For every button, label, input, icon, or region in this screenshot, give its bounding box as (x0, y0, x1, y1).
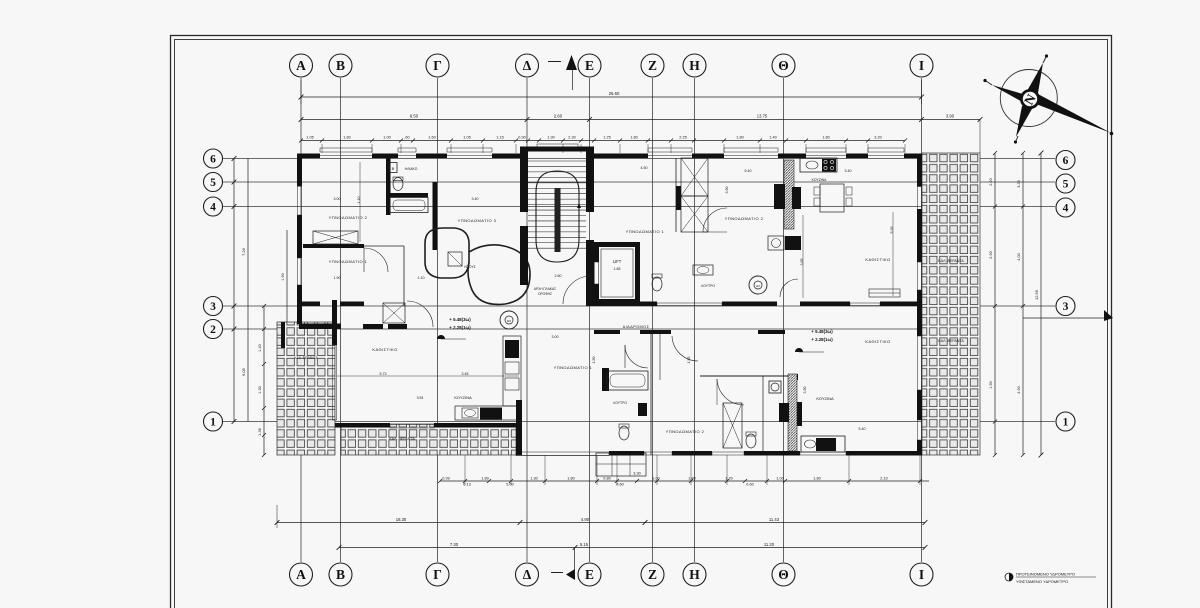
svg-text:0.93: 0.93 (417, 396, 424, 400)
svg-text:5.73: 5.73 (380, 372, 387, 376)
svg-text:2.30: 2.30 (568, 136, 575, 140)
svg-text:11.20: 11.20 (764, 542, 775, 547)
svg-text:ΔΙΑΔΡΟΜΟΣ: ΔΙΑΔΡΟΜΟΣ (623, 324, 650, 329)
svg-text:ΥΦΙΣΤΑΜΕΝΟ ΥΔΡΟΜΕΤΡΟ: ΥΦΙΣΤΑΜΕΝΟ ΥΔΡΟΜΕΤΡΟ (1016, 579, 1068, 584)
svg-text:1.36: 1.36 (258, 428, 262, 435)
svg-text:12.56: 12.56 (1034, 289, 1039, 300)
shower pod blobs (425, 228, 469, 278)
svg-text:1.50: 1.50 (592, 357, 596, 364)
svg-text:1.40: 1.40 (258, 344, 262, 351)
kitchen counters left (455, 406, 519, 420)
svg-text:5.40: 5.40 (745, 169, 752, 173)
veranda right (tiled) (922, 153, 980, 455)
svg-text:B: B (392, 166, 395, 171)
svg-text:ΥΠΝΟΔΩΜΑΤΙΟ 1: ΥΠΝΟΔΩΜΑΤΙΟ 1 (329, 259, 368, 264)
svg-text:H: H (689, 58, 700, 73)
toilet 2 bottom apt (746, 434, 756, 448)
bath fixtures right apt (652, 277, 662, 291)
svg-text:+ 2.28(1ω): + 2.28(1ω) (811, 337, 833, 342)
svg-text:5.15: 5.15 (580, 542, 589, 547)
border frame inner (175, 40, 1108, 608)
kitchen counter top apt (800, 158, 837, 172)
walls bottom apt verticals (650, 334, 652, 455)
entry door arc (563, 276, 591, 304)
wall kitchen south-east (516, 400, 522, 424)
boiler (389, 163, 397, 173)
svg-text:1.20: 1.20 (725, 477, 732, 481)
heater symbol right apt (749, 276, 767, 294)
lift door gap (595, 262, 599, 284)
veranda left top wall (299, 324, 341, 330)
bottom wall right apartment (609, 451, 644, 456)
svg-text:LIFT: LIFT (613, 259, 622, 264)
svg-text:4: 4 (210, 201, 216, 213)
legend (1005, 573, 1013, 581)
svg-text:ΚΑΘΙΣΤΙΚΟ: ΚΑΘΙΣΤΙΚΟ (372, 347, 397, 352)
svg-text:Γ: Γ (433, 58, 442, 73)
svg-text:ΟΡΟΦΗΣ: ΟΡΟΦΗΣ (538, 292, 552, 296)
svg-text:4.50: 4.50 (641, 166, 648, 170)
svg-text:0.13: 0.13 (463, 483, 470, 487)
svg-text:3.25: 3.25 (1017, 180, 1021, 187)
svg-text:3.30: 3.30 (633, 472, 640, 476)
svg-text:ΚΟΥΖΙΝΑ: ΚΟΥΖΙΝΑ (812, 178, 827, 182)
svg-text:1.25: 1.25 (603, 136, 610, 140)
dimension column right middle (1022, 153, 1024, 455)
kitchen counter bottom apt (801, 436, 845, 452)
svg-text:1.80: 1.80 (822, 136, 829, 140)
stair left wall (520, 147, 528, 212)
boiler circles symbol (500, 311, 518, 329)
svg-text:2.25: 2.25 (679, 136, 686, 140)
dimension column left small (263, 306, 265, 455)
wall bed1 east (403, 246, 405, 306)
svg-text:E: E (585, 567, 594, 582)
svg-text:1.80: 1.80 (343, 136, 350, 140)
svg-text:ΝΤΟΥΣ: ΝΤΟΥΣ (464, 265, 475, 269)
svg-text:ΚΑΘΙΣΤΙΚΟ: ΚΑΘΙΣΤΙΚΟ (865, 339, 890, 344)
svg-text:5: 5 (1063, 178, 1069, 190)
wardrobe X bottom apt (723, 403, 742, 448)
svg-text:2: 2 (210, 324, 216, 336)
svg-text:ΥΠΝΟΔΩΜΑΤΙΟ 2: ΥΠΝΟΔΩΜΑΤΙΟ 2 (725, 216, 764, 221)
row3 wall right apartment (594, 302, 657, 307)
wall bath west (386, 158, 391, 215)
partition bed2/bed1 (303, 244, 364, 248)
svg-text:1.00: 1.00 (652, 477, 659, 481)
veranda left (tiled) (277, 322, 335, 455)
svg-text:1.30: 1.30 (530, 477, 537, 481)
svg-text:3.40: 3.40 (472, 197, 479, 201)
appliances row (oven+hob) (785, 236, 801, 250)
small protruding room (596, 453, 646, 476)
svg-text:1.80: 1.80 (630, 136, 637, 140)
svg-text:+ 5.48(3ω): + 5.48(3ω) (811, 329, 833, 334)
dimension row top total 25.60 (301, 96, 922, 98)
svg-text:2.60: 2.60 (554, 114, 563, 119)
door arc bed1 (364, 248, 388, 272)
svg-text:1.90: 1.90 (989, 381, 993, 388)
exterior wall top band with windows (297, 154, 320, 159)
svg-text:+ 5.48(3ω): + 5.48(3ω) (449, 317, 471, 322)
duct hatch bottom apt (788, 374, 797, 451)
svg-text:1.90: 1.90 (281, 273, 285, 280)
svg-text:6: 6 (1063, 155, 1069, 167)
svg-text:A: A (296, 58, 306, 73)
svg-text:7.30: 7.30 (450, 542, 459, 547)
svg-text:6: 6 (210, 153, 216, 165)
svg-text:3.45: 3.45 (462, 372, 469, 376)
kitchen east column (503, 336, 521, 406)
svg-text:0.90: 0.90 (518, 136, 525, 140)
svg-text:2.60: 2.60 (555, 274, 562, 278)
svg-text:1.30: 1.30 (258, 386, 262, 393)
svg-text:5.00: 5.00 (506, 483, 513, 487)
svg-text:6.05: 6.05 (241, 367, 246, 376)
svg-text:11.43: 11.43 (769, 517, 780, 522)
wardrobe X left (313, 231, 358, 244)
svg-text:4.90: 4.90 (1017, 386, 1021, 393)
svg-text:5.40: 5.40 (859, 427, 866, 431)
svg-text:ΚΟΥΖΙΝΑ: ΚΟΥΖΙΝΑ (454, 395, 472, 400)
svg-text:ΥΠΝΟΔΩΜΑΤΙΟ 2: ΥΠΝΟΔΩΜΑΤΙΟ 2 (329, 215, 368, 220)
compass rose (1000, 70, 1057, 127)
svg-text:ΛΟΥΤΡΟ: ΛΟΥΤΡΟ (613, 401, 627, 405)
svg-text:B: B (336, 58, 345, 73)
svg-text:ΠΡΟΤΕΙΝΟΜΕΝΟ ΥΔΡΟΜΕΤΡΟ: ΠΡΟΤΕΙΝΟΜΕΝΟ ΥΔΡΟΜΕΤΡΟ (1016, 572, 1075, 577)
bathtub bottom apt (607, 371, 648, 390)
bathtub 1 (390, 198, 428, 213)
svg-text:ΥΠΝΟΔΩΜΑΤΙΟ 1: ΥΠΝΟΔΩΜΑΤΙΟ 1 (626, 229, 665, 234)
wall bed1/bed2 (675, 158, 677, 232)
svg-text:13.75: 13.75 (757, 114, 768, 119)
svg-text:Δ: Δ (523, 567, 532, 582)
svg-text:1: 1 (1063, 416, 1069, 428)
svg-text:ΚΑΛ. ΒΕΡΑΝΤΑ: ΚΑΛ. ΒΕΡΑΝΤΑ (938, 339, 964, 343)
svg-text:1.80: 1.80 (736, 136, 743, 140)
grid lines vertical A-I (300, 78, 302, 562)
dimension row top second 8.50 / 2.60 / 13.75 / 3.90 (301, 119, 980, 121)
exterior wall right x=917 (917, 154, 922, 187)
svg-text:ΥΠΝΟΔΩΜΑΤΙΟ 3: ΥΠΝΟΔΩΜΑΤΙΟ 3 (458, 218, 497, 223)
wardrobe X right apt (681, 158, 708, 196)
svg-text:2.90: 2.90 (989, 251, 993, 258)
svg-text:1.90: 1.90 (547, 136, 554, 140)
wardrobe X hall (383, 303, 405, 323)
svg-text:+ 2.28(1ω): + 2.28(1ω) (449, 325, 471, 330)
svg-text:1.10: 1.10 (418, 276, 425, 280)
svg-text:I: I (919, 58, 924, 73)
svg-text:1.05: 1.05 (306, 136, 313, 140)
svg-text:5.35: 5.35 (890, 227, 894, 234)
svg-text:3.50: 3.50 (803, 387, 807, 394)
dimension row bottom 18.30 / 4.90 / 11.43 (277, 522, 925, 524)
svg-text:2.10: 2.10 (880, 477, 887, 481)
dimension row bottom small dims (440, 480, 929, 482)
living west wall (332, 300, 337, 345)
svg-text:B: B (336, 567, 345, 582)
svg-text:1.60: 1.60 (428, 136, 435, 140)
stair treads (528, 160, 586, 162)
svg-text:1.55: 1.55 (687, 357, 691, 364)
svg-text:ΚΑΘΙΣΤΙΚΟ: ΚΑΘΙΣΤΙΚΟ (865, 257, 890, 262)
lift shaft (594, 242, 640, 247)
stair top wall jut (520, 147, 594, 152)
svg-text:1.90: 1.90 (334, 276, 341, 280)
svg-text:7.26: 7.26 (241, 247, 246, 256)
svg-text:1.15: 1.15 (496, 136, 503, 140)
dimension row bottom 7.30 / 5.15 / 11.20 (339, 547, 925, 549)
dimension column right inner (994, 153, 996, 455)
svg-text:Z: Z (648, 567, 657, 582)
svg-text:ΛΟΥΤΡΟ: ΛΟΥΤΡΟ (701, 284, 715, 288)
svg-text:18.30: 18.30 (396, 517, 407, 522)
veranda bottom (tiled) (341, 424, 516, 455)
svg-text:Θ: Θ (778, 567, 789, 582)
svg-text:0.99: 0.99 (442, 477, 449, 481)
stair guard oval (536, 171, 579, 262)
toilet 1 (393, 178, 403, 191)
svg-text:1.89: 1.89 (481, 477, 488, 481)
svg-text:ΘΣ: ΘΣ (507, 319, 511, 323)
svg-text:Θ: Θ (778, 58, 789, 73)
svg-text:ΚΟΥΖΙΝΑ: ΚΟΥΖΙΝΑ (816, 396, 834, 401)
svg-text:3.00: 3.00 (334, 197, 341, 201)
svg-text:3: 3 (210, 301, 216, 313)
shower square (448, 252, 462, 266)
corridor walls (594, 330, 620, 334)
svg-text:4.00: 4.00 (1017, 253, 1021, 260)
sliding door top apt (869, 289, 900, 297)
svg-text:3.85: 3.85 (800, 259, 804, 266)
section marker bottom (551, 572, 563, 574)
svg-text:Δ: Δ (523, 58, 532, 73)
svg-text:ΑΡΧΗ ΠΛΑΚΑΣ: ΑΡΧΗ ΠΛΑΚΑΣ (534, 287, 556, 291)
border frame outer (171, 36, 1112, 608)
grid bubbles left column (204, 149, 223, 168)
section marker top (548, 61, 561, 63)
svg-text:3.90: 3.90 (946, 114, 955, 119)
svg-text:1.80: 1.80 (688, 477, 695, 481)
svg-text:0.80: 0.80 (603, 477, 610, 481)
svg-text:8.50: 8.50 (410, 114, 419, 119)
svg-text:0.60: 0.60 (616, 483, 623, 487)
svg-text:1.80: 1.80 (813, 477, 820, 481)
svg-text:H: H (689, 567, 700, 582)
svg-text:1.00: 1.00 (776, 477, 783, 481)
svg-text:ΗΛ: ΗΛ (756, 284, 760, 288)
stair right wall (586, 147, 594, 212)
door arc hall (407, 301, 433, 327)
svg-text:4.90: 4.90 (581, 517, 590, 522)
svg-text:Z: Z (648, 58, 657, 73)
duct hatch top apt (784, 160, 794, 229)
svg-text:1.10: 1.10 (357, 197, 361, 204)
grid bubbles top row (290, 54, 313, 77)
svg-text:ΥΠΝΟΔΩΜΑΤΙΟ 2: ΥΠΝΟΔΩΜΑΤΙΟ 2 (666, 429, 705, 434)
svg-text:5: 5 (210, 177, 216, 189)
stair arrow (578, 205, 580, 218)
svg-text:ΥΠΝΟΔΩΜΑΤΙΟ 1: ΥΠΝΟΔΩΜΑΤΙΟ 1 (554, 365, 593, 370)
svg-text:1.85: 1.85 (614, 267, 621, 271)
door arc bed2 (703, 208, 727, 232)
partition y=376 bottom apt (700, 375, 788, 377)
dimension column right outer 12.56 (1040, 153, 1042, 455)
svg-text:I: I (919, 567, 924, 582)
dimension row top small dims (301, 140, 905, 142)
svg-text:3: 3 (1063, 301, 1069, 313)
dining table (820, 184, 844, 212)
section line right with arrow (1023, 317, 1112, 319)
svg-text:3.00: 3.00 (552, 335, 559, 339)
svg-text:3.50: 3.50 (725, 187, 729, 194)
svg-text:3.20: 3.20 (874, 136, 881, 140)
svg-text:2.20: 2.20 (989, 178, 993, 185)
toilet bottom apt (619, 426, 629, 440)
svg-text:ΚΑΛ. ΒΕΡΑΝΤΑ: ΚΑΛ. ΒΕΡΑΝΤΑ (389, 437, 415, 441)
door arcs bath right apt (780, 279, 798, 297)
grid bubbles right column (1056, 151, 1075, 170)
svg-text:25.60: 25.60 (609, 91, 620, 96)
svg-text:1.40: 1.40 (769, 136, 776, 140)
svg-text:E: E (585, 58, 594, 73)
svg-text:1.05: 1.05 (463, 136, 470, 140)
dimension column left 7.26 (233, 159, 235, 422)
svg-text:A: A (296, 567, 306, 582)
grid bubbles bottom row (290, 563, 313, 586)
hall partitions left apt (297, 302, 320, 307)
svg-text:1.00: 1.00 (383, 136, 390, 140)
svg-text:ΚΑΛ. ΒΕΡΑΝΤΑ: ΚΑΛ. ΒΕΡΑΝΤΑ (938, 259, 964, 263)
bottom wall left apartment (335, 423, 390, 428)
svg-text:.60: .60 (404, 136, 409, 140)
door arcs bottom apt (625, 345, 648, 368)
svg-text:ΚΑΛ. ΒΕΡΑΝΤΑ: ΚΑΛ. ΒΕΡΑΝΤΑ (294, 356, 318, 360)
svg-text:ΗΛΙΑΚΟ: ΗΛΙΑΚΟ (405, 167, 418, 171)
exterior wall left (297, 154, 302, 187)
bottom window band middle (bed1) (516, 452, 609, 456)
wall bath east (433, 182, 438, 250)
grid lines horizontal 1-6 (222, 158, 1055, 160)
svg-text:Γ: Γ (433, 567, 442, 582)
wall bath divider (389, 193, 428, 197)
svg-text:4: 4 (1063, 202, 1069, 214)
sink square bottom apt (769, 381, 781, 393)
veranda west wall stub (281, 322, 285, 348)
svg-text:3.40: 3.40 (845, 169, 852, 173)
svg-text:1.80: 1.80 (567, 477, 574, 481)
svg-text:1: 1 (210, 416, 216, 428)
svg-text:0.60: 0.60 (746, 483, 753, 487)
stair stringer (555, 188, 561, 252)
